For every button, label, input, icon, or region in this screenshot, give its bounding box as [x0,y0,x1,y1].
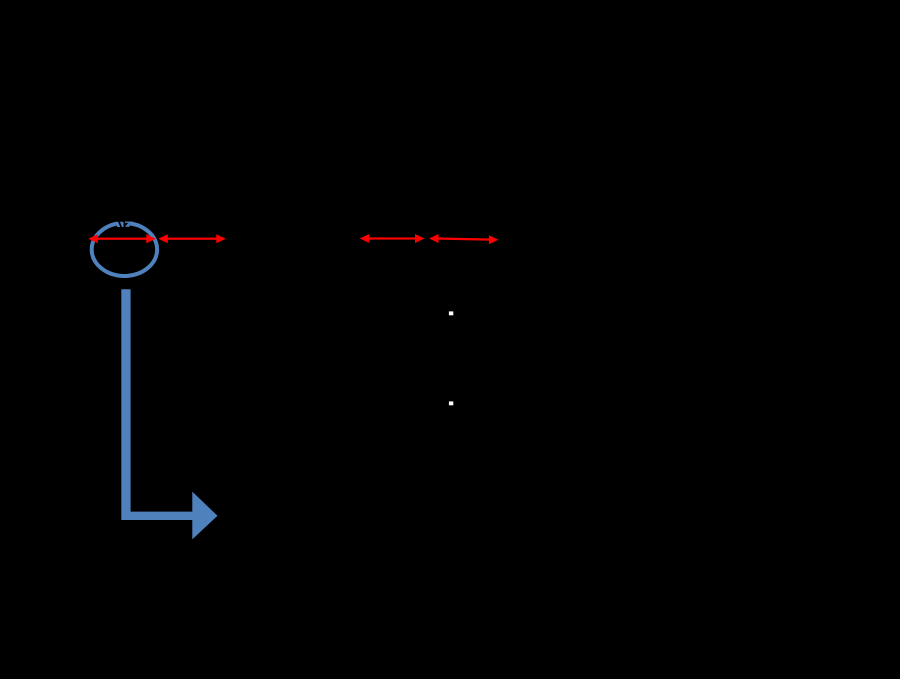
notch (black text overlapping ellipse top) [117,214,130,228]
red arrow 2 [158,234,226,243]
red arrow 4 (slight downward slope) [429,234,498,244]
red arrow 3 [360,234,425,243]
ellipse (blue outlined circle) [92,223,157,276]
white tick 1 [449,311,453,315]
white tick 2 [449,401,453,405]
blue bent (elbow) arrow [121,289,217,539]
red arrow 1 (over ellipse) [88,234,156,243]
